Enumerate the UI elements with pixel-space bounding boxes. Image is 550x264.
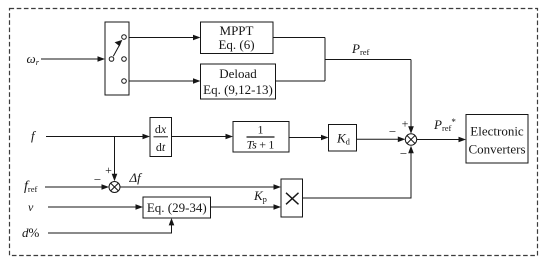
svg-text:+: +: [402, 117, 409, 131]
svg-text:d%: d%: [22, 225, 40, 240]
svg-text:Converters: Converters: [468, 142, 525, 157]
block derivative dx/dt: [150, 118, 172, 157]
summer U2: [405, 134, 416, 145]
svg-text:+: +: [105, 163, 112, 177]
wire summer U2 to converters: [417, 137, 466, 143]
svg-text:MPPT: MPPT: [220, 23, 254, 38]
multiplier X: [281, 179, 303, 217]
svg-text:Pref*: Pref*: [433, 117, 456, 133]
svg-text:−: −: [400, 146, 407, 161]
svg-text:fref: fref: [24, 179, 37, 194]
svg-text:ωr: ωr: [27, 51, 40, 67]
svg-text:Eq. (6): Eq. (6): [218, 37, 254, 52]
wire v to Eq block: [48, 204, 143, 210]
svg-text:−: −: [94, 172, 101, 187]
wire Eq block to multiplier: [211, 204, 282, 210]
wire f_ref to summer U1: [45, 184, 109, 190]
svg-text:Ts + 1: Ts + 1: [247, 138, 275, 152]
block gain Kd: [329, 125, 357, 152]
svg-text:Eq. (29-34): Eq. (29-34): [147, 200, 207, 215]
wire delta f to multiplier: [120, 184, 281, 190]
svg-text:Kp: Kp: [253, 188, 267, 204]
block Eq. (29-34): [143, 197, 211, 218]
wire switch to MPPT: [129, 35, 201, 41]
switch S1: [105, 22, 129, 95]
wire joining vertical: [324, 38, 326, 82]
block lag 1/(Ts+1): [233, 122, 289, 153]
wire lag to Kd: [289, 135, 329, 141]
svg-text:dt: dt: [156, 140, 166, 154]
wire switch to Deload: [129, 78, 201, 84]
wire omega_r to switch: [41, 56, 105, 62]
wire multiplier to summer U2: [303, 146, 414, 198]
block MPPT Eq. (6): [201, 22, 274, 54]
svg-text:1: 1: [258, 123, 264, 137]
svg-text:Δf: Δf: [129, 170, 144, 185]
svg-text:Eq. (9,12-13): Eq. (9,12-13): [203, 82, 273, 97]
svg-text:f: f: [31, 128, 37, 143]
wire Kd to summer U2: [357, 137, 406, 143]
wire MPPT output: [273, 37, 325, 39]
svg-text:dx: dx: [155, 122, 167, 136]
svg-text:Electronic: Electronic: [470, 124, 524, 139]
svg-text:Deload: Deload: [219, 66, 257, 81]
block Electronic Converters: [466, 115, 528, 164]
summer U1: [109, 182, 120, 193]
wire f to derivative: [46, 134, 150, 140]
block Deload Eq. (9,12-13): [201, 64, 276, 99]
wire f branch down to summer U1: [112, 137, 118, 182]
svg-text:−: −: [389, 124, 396, 139]
wire Deload output: [276, 80, 326, 82]
wire d% to Eq block bottom: [48, 218, 174, 233]
wire derivative to lag block: [172, 134, 234, 140]
wire P_ref horizontal: [325, 59, 411, 61]
svg-text:Pref: Pref: [351, 41, 370, 57]
svg-text:v: v: [28, 200, 34, 214]
wire P_ref down to summer: [408, 60, 414, 134]
